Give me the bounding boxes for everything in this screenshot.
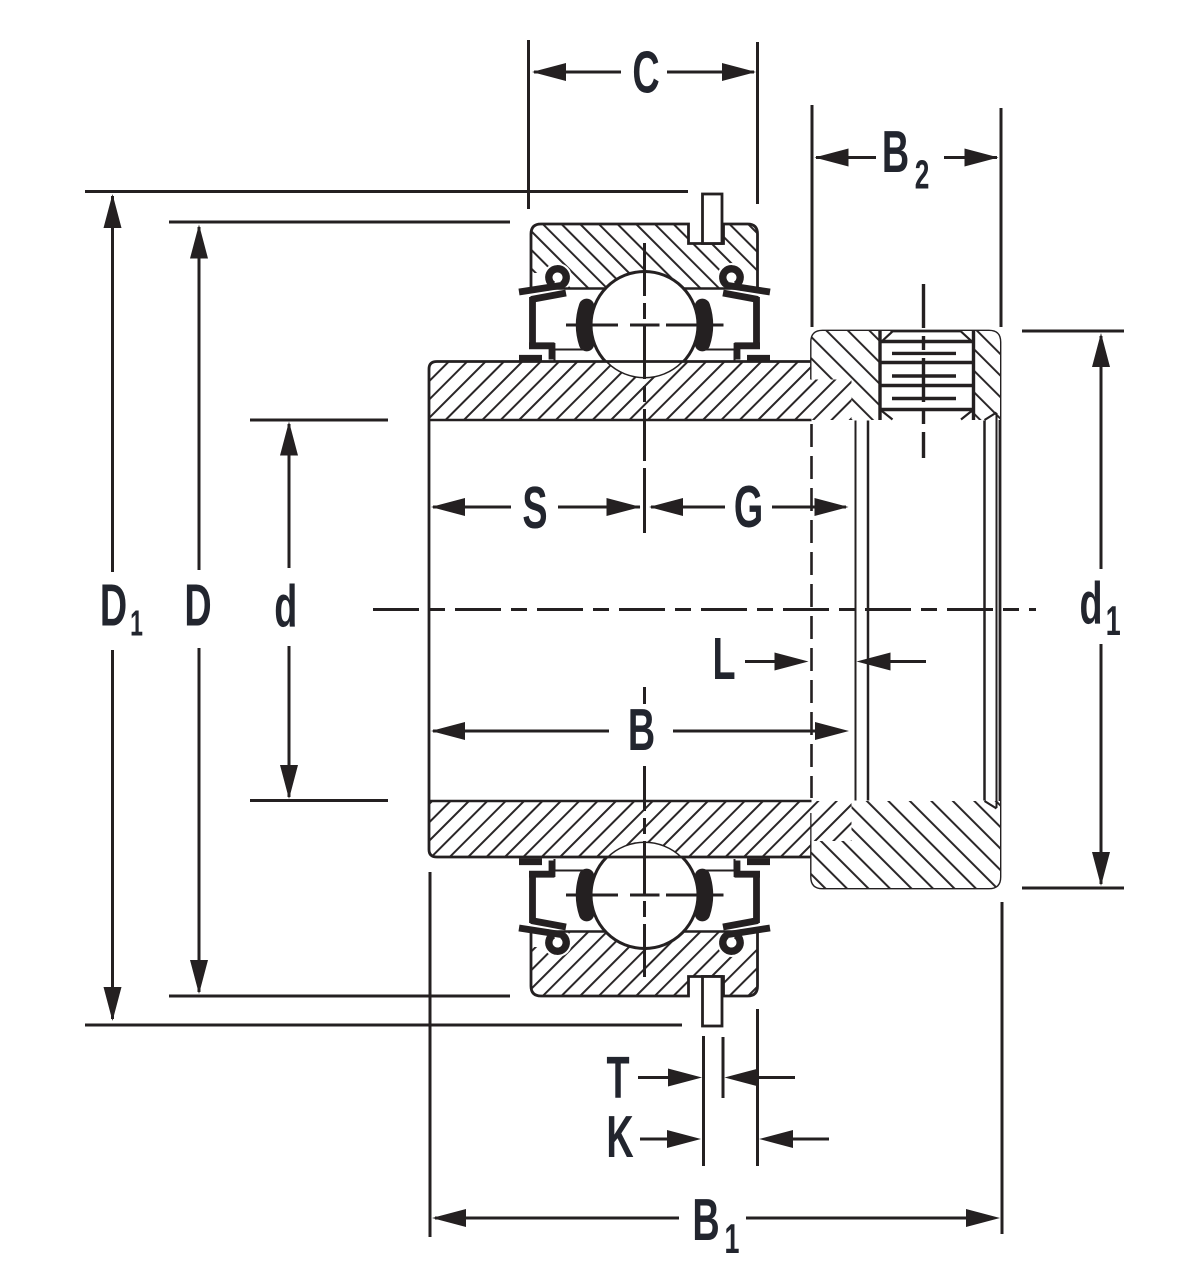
- eccentric locking collar: [806, 284, 1006, 894]
- svg-text:L: L: [712, 627, 735, 693]
- sleeve step top: [812, 378, 852, 381]
- collar top hatched section: [806, 326, 1006, 426]
- collar bore edge: [855, 421, 857, 801]
- sleeve bore bottom line: [429, 800, 985, 803]
- set screw centerline: [922, 284, 925, 458]
- sleeve/collar overlap hatch bottom: [812, 801, 852, 841]
- shaft sleeve top wall hatch: [425, 358, 857, 424]
- sleeve bore top line: [429, 419, 985, 422]
- dimension B1: [430, 872, 1002, 1237]
- bottom bearing (mirror of top): [519, 842, 770, 1027]
- inner ring shoulder right: [705, 350, 735, 362]
- svg-text:2: 2: [915, 153, 930, 198]
- dimension d: [250, 420, 388, 801]
- seal left curl: [549, 269, 566, 285]
- inner ring shoulder left: [555, 350, 585, 362]
- shaft sleeve outline: [429, 362, 812, 858]
- outer ring outline: [531, 224, 758, 289]
- set screw hole corner chamfers: [880, 332, 974, 420]
- svg-text:B: B: [628, 698, 655, 764]
- chamfer diagonal top: [985, 413, 997, 421]
- outer ring inner edge left: [531, 287, 605, 289]
- svg-text:D: D: [184, 573, 211, 639]
- sleeve step bottom: [812, 840, 852, 843]
- outer ring inner edge right: [684, 287, 758, 289]
- raceway contact crescent right: [702, 306, 705, 343]
- outer ring hatched section: [525, 218, 765, 296]
- set screw hole right wall: [972, 331, 975, 420]
- top ball vertical centerline: [643, 243, 646, 533]
- svg-text:S: S: [522, 476, 547, 542]
- svg-text:D: D: [100, 573, 127, 639]
- svg-text:C: C: [632, 40, 659, 106]
- svg-text:K: K: [606, 1105, 633, 1171]
- svg-text:G: G: [734, 475, 763, 541]
- dimension B2: [812, 105, 1001, 327]
- bearing cross-section (top half group, mirrored below for bottom half): [519, 194, 770, 379]
- collar bottom hatched section: [806, 796, 1006, 894]
- collar right face chamfer line: [996, 413, 998, 808]
- raceway contact crescent left: [584, 306, 587, 343]
- dimension T: [638, 1036, 795, 1166]
- ball: [591, 272, 698, 379]
- chamfer diagonal bottom: [985, 801, 997, 809]
- svg-text:B: B: [882, 120, 909, 186]
- svg-text:1: 1: [130, 604, 143, 643]
- dimension d1: [1022, 331, 1124, 888]
- svg-text:1: 1: [725, 1216, 740, 1262]
- dimension S: [433, 506, 640, 509]
- sleeve end face: [850, 380, 853, 842]
- svg-text:d: d: [274, 574, 297, 640]
- main horizontal centerline: [373, 608, 1036, 611]
- dimension L: [745, 660, 926, 663]
- ball crosshair horizontal ticks: [566, 324, 724, 327]
- svg-text:d: d: [1079, 571, 1102, 637]
- set screw thread crest lines: [880, 342, 974, 410]
- seal right curl: [723, 269, 740, 285]
- collar counterbore edge: [867, 421, 870, 801]
- dimension G: [651, 506, 846, 509]
- set screw hole left wall: [878, 331, 881, 420]
- svg-text:1: 1: [1106, 598, 1121, 644]
- dimension C: [529, 40, 758, 209]
- dimension B: [433, 730, 816, 733]
- svg-text:B: B: [692, 1188, 719, 1254]
- dimension K: [640, 1009, 829, 1166]
- collar face visible segment (bottom): [810, 813, 813, 841]
- dimension D1: [85, 192, 688, 1026]
- seal left: [519, 285, 566, 360]
- shaft sleeve bottom wall hatch: [425, 797, 857, 861]
- sleeve/collar overlap hatch top: [812, 380, 852, 421]
- set screw thread root lines: [892, 353, 956, 398]
- seal right: [723, 285, 770, 360]
- collar inner right edge: [983, 421, 986, 801]
- lubrication pin in outer ring notch: [703, 194, 723, 244]
- collar face hidden edge (dashed): [810, 424, 813, 798]
- bottom ball vertical centerline: [643, 687, 646, 977]
- dimension D: [169, 222, 510, 996]
- svg-text:T: T: [606, 1046, 629, 1112]
- collar outline: [812, 331, 1001, 888]
